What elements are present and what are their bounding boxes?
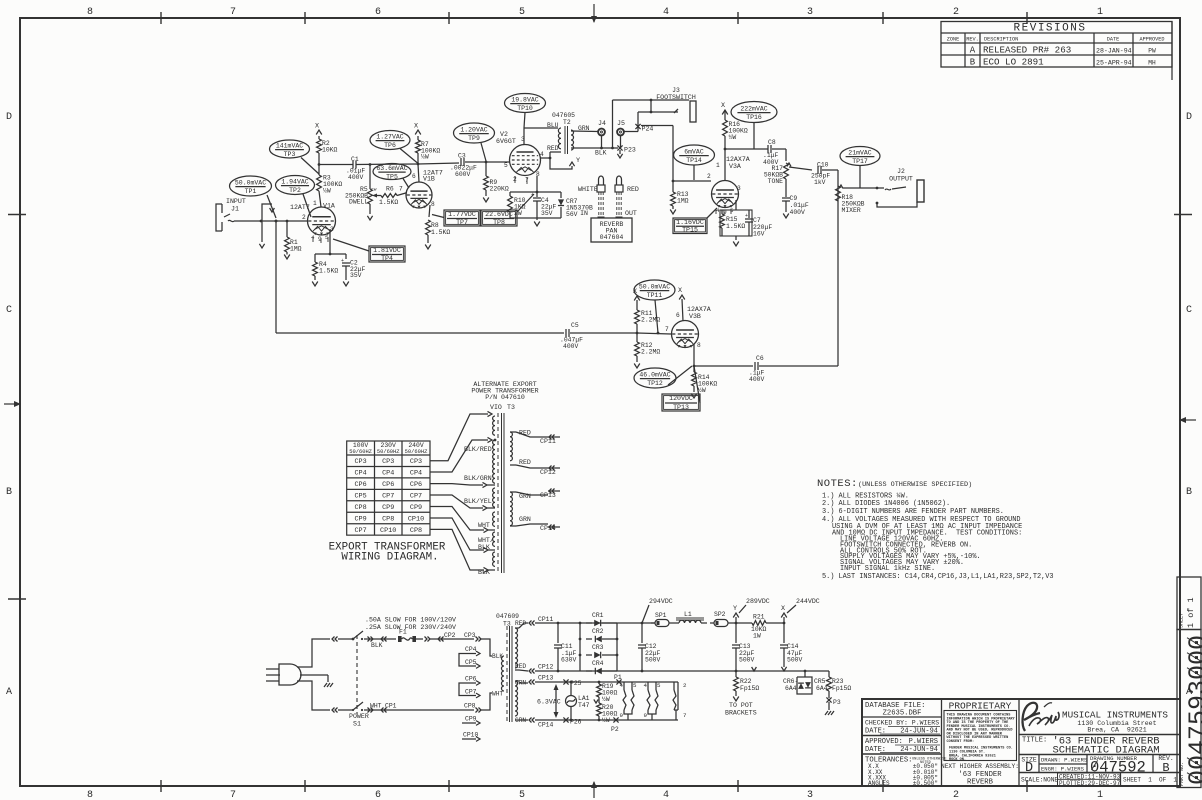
svg-text:CP10: CP10 bbox=[463, 732, 479, 739]
svg-text:CHECKED BY: P.WIERS: CHECKED BY: P.WIERS bbox=[865, 720, 939, 727]
svg-text:R21: R21 bbox=[753, 614, 765, 621]
svg-text:CP6: CP6 bbox=[354, 481, 366, 489]
svg-text:7: 7 bbox=[683, 712, 687, 719]
svg-text:WHT/: WHT/ bbox=[478, 537, 494, 544]
svg-text:CP3: CP3 bbox=[410, 458, 422, 466]
svg-text:J4: J4 bbox=[598, 120, 606, 127]
svg-text:4: 4 bbox=[663, 7, 669, 18]
svg-text:CR3: CR3 bbox=[592, 644, 604, 651]
svg-text:CP14: CP14 bbox=[538, 722, 554, 729]
svg-text:+: + bbox=[745, 213, 748, 219]
svg-text:1: 1 bbox=[1097, 790, 1103, 800]
svg-text:CP1: CP1 bbox=[385, 703, 397, 710]
svg-text:400V: 400V bbox=[563, 343, 579, 350]
svg-text:TP3: TP3 bbox=[284, 151, 296, 158]
svg-text:A: A bbox=[970, 46, 976, 56]
svg-text:9: 9 bbox=[644, 712, 648, 719]
svg-text:.50A SLOW FOR 100V/120V: .50A SLOW FOR 100V/120V bbox=[365, 617, 456, 624]
svg-text:P3: P3 bbox=[833, 699, 841, 706]
svg-text:MH: MH bbox=[1148, 60, 1156, 67]
svg-text:6A4: 6A4 bbox=[785, 685, 797, 692]
svg-text:CP7: CP7 bbox=[382, 492, 394, 500]
svg-text:CP5: CP5 bbox=[465, 659, 477, 666]
svg-text:WHITE: WHITE bbox=[578, 186, 598, 193]
svg-text:1MΩ: 1MΩ bbox=[290, 246, 302, 253]
svg-text:0: 0 bbox=[1184, 770, 1202, 785]
svg-text:6V6GT: 6V6GT bbox=[496, 138, 516, 145]
svg-text:WHT: WHT bbox=[492, 691, 503, 698]
svg-text:3.) 6-DIGIT NUMBERS ARE FENDER: 3.) 6-DIGIT NUMBERS ARE FENDER PART NUMB… bbox=[822, 508, 1004, 516]
svg-text:SP1: SP1 bbox=[655, 612, 667, 619]
svg-text:IN: IN bbox=[580, 210, 588, 217]
svg-text:2: 2 bbox=[683, 682, 687, 689]
svg-text:B: B bbox=[6, 487, 12, 498]
svg-text:RED: RED bbox=[515, 663, 526, 670]
svg-text:CR5-: CR5- bbox=[814, 678, 829, 685]
svg-text:J2: J2 bbox=[897, 168, 905, 175]
svg-text:141mVAC: 141mVAC bbox=[276, 143, 303, 150]
svg-text:T47: T47 bbox=[578, 702, 590, 709]
svg-text:V1B: V1B bbox=[423, 176, 435, 183]
svg-text:289VDC: 289VDC bbox=[746, 598, 770, 605]
svg-text:100V: 100V bbox=[353, 442, 369, 449]
svg-text:244VDC: 244VDC bbox=[796, 598, 820, 605]
svg-text:+: + bbox=[531, 191, 534, 198]
svg-text:BLK/RED: BLK/RED bbox=[464, 446, 492, 453]
svg-text:P23: P23 bbox=[624, 147, 636, 154]
svg-text:1.20VAC: 1.20VAC bbox=[460, 127, 487, 134]
svg-text:7: 7 bbox=[230, 7, 236, 18]
svg-text:SP2: SP2 bbox=[714, 611, 726, 618]
svg-text:PROPRIETARY: PROPRIETARY bbox=[949, 701, 1012, 712]
svg-text:500V: 500V bbox=[787, 657, 803, 664]
svg-text:46.0mVAC: 46.0mVAC bbox=[639, 372, 670, 379]
svg-text:NEXT HIGHER ASSEMBLY:: NEXT HIGHER ASSEMBLY: bbox=[941, 763, 1019, 770]
svg-text:D: D bbox=[6, 112, 12, 123]
svg-text:CP10: CP10 bbox=[380, 527, 396, 535]
svg-text:3: 3 bbox=[807, 7, 813, 18]
svg-text:50.0mVAC: 50.0mVAC bbox=[235, 180, 266, 187]
svg-text:½W: ½W bbox=[323, 187, 331, 195]
svg-text:220KΩ: 220KΩ bbox=[490, 186, 509, 193]
svg-text:6mVAC: 6mVAC bbox=[684, 149, 704, 156]
svg-text:5: 5 bbox=[657, 682, 661, 689]
svg-text:BLK/YEL: BLK/YEL bbox=[464, 498, 492, 505]
svg-text:047604: 047604 bbox=[600, 234, 624, 241]
svg-text:CP10: CP10 bbox=[408, 515, 424, 523]
svg-text:CP3: CP3 bbox=[354, 458, 366, 466]
svg-text:Fp15Ω: Fp15Ω bbox=[832, 685, 851, 692]
svg-text:BRACKETS: BRACKETS bbox=[725, 710, 757, 717]
svg-text:Brea, CA 92621: Brea, CA 92621 bbox=[1087, 727, 1146, 734]
svg-text:047605: 047605 bbox=[552, 112, 575, 119]
svg-text:4: 4 bbox=[540, 151, 544, 158]
svg-text:7: 7 bbox=[230, 790, 236, 800]
svg-text:230V: 230V bbox=[381, 442, 397, 449]
svg-text:DWELL: DWELL bbox=[349, 199, 368, 206]
svg-text:BLK: BLK bbox=[478, 569, 490, 576]
svg-text:4: 4 bbox=[663, 790, 669, 800]
svg-text:630V: 630V bbox=[561, 657, 577, 664]
svg-text:X: X bbox=[315, 123, 319, 131]
svg-text:POWER: POWER bbox=[349, 713, 369, 720]
svg-text:6: 6 bbox=[375, 7, 381, 18]
svg-text:12AX7A: 12AX7A bbox=[726, 156, 750, 163]
svg-text:CONSENT FROM:: CONSENT FROM: bbox=[947, 740, 975, 744]
svg-text:TP15: TP15 bbox=[682, 227, 698, 234]
svg-text:TP5: TP5 bbox=[386, 173, 398, 180]
svg-text:CR1: CR1 bbox=[592, 612, 604, 619]
svg-text:S1: S1 bbox=[353, 721, 361, 728]
svg-text:CP7: CP7 bbox=[354, 527, 366, 535]
svg-text:12AX7A: 12AX7A bbox=[687, 306, 711, 313]
svg-text:SHEET 1 OF 1: SHEET 1 OF 1 bbox=[1123, 777, 1177, 784]
svg-text:CP6: CP6 bbox=[382, 481, 394, 489]
svg-text:50/60HZ: 50/60HZ bbox=[349, 449, 372, 455]
svg-text:50/60HZ: 50/60HZ bbox=[377, 449, 400, 455]
svg-text:TP1: TP1 bbox=[245, 188, 257, 195]
svg-text:X: X bbox=[721, 102, 725, 110]
svg-text:CP5: CP5 bbox=[354, 492, 366, 500]
svg-text:TP8: TP8 bbox=[493, 219, 505, 226]
svg-text:1W: 1W bbox=[753, 633, 761, 640]
svg-text:1.16VDC: 1.16VDC bbox=[676, 219, 704, 226]
svg-text:CP11: CP11 bbox=[538, 616, 554, 623]
svg-text:5: 5 bbox=[633, 682, 637, 689]
svg-text:MUSICAL INSTRUMENTS: MUSICAL INSTRUMENTS bbox=[1062, 710, 1168, 721]
svg-text:.25A SLOW FOR 230V/240V: .25A SLOW FOR 230V/240V bbox=[365, 624, 456, 631]
svg-text:C10: C10 bbox=[817, 162, 829, 169]
svg-text:3: 3 bbox=[807, 790, 813, 800]
svg-text:D: D bbox=[1186, 112, 1192, 123]
svg-text:22.6VDC: 22.6VDC bbox=[485, 211, 513, 218]
svg-text:8: 8 bbox=[87, 790, 93, 800]
svg-text:50.0mVAC: 50.0mVAC bbox=[639, 284, 670, 291]
svg-text:1.5KΩ: 1.5KΩ bbox=[319, 268, 338, 275]
svg-text:PW: PW bbox=[1148, 48, 1156, 55]
svg-text:10KΩ: 10KΩ bbox=[322, 147, 338, 154]
svg-text:MIXER: MIXER bbox=[842, 207, 861, 214]
svg-text:½W: ½W bbox=[421, 153, 429, 161]
svg-text:1: 1 bbox=[313, 200, 317, 207]
svg-text:TP9: TP9 bbox=[468, 135, 480, 142]
svg-text:222mVAC: 222mVAC bbox=[740, 106, 767, 113]
svg-text:P2: P2 bbox=[611, 726, 619, 733]
svg-text:C: C bbox=[1186, 305, 1192, 316]
svg-text:CP9: CP9 bbox=[382, 504, 394, 512]
svg-text:T2: T2 bbox=[563, 119, 571, 126]
svg-text:R23: R23 bbox=[832, 678, 844, 685]
svg-text:CR4: CR4 bbox=[592, 660, 604, 667]
svg-text:WIRING DIAGRAM.: WIRING DIAGRAM. bbox=[341, 552, 438, 564]
svg-text:2.2MΩ: 2.2MΩ bbox=[641, 349, 660, 356]
svg-text:BLK/GRN: BLK/GRN bbox=[464, 475, 492, 482]
svg-text:CP3: CP3 bbox=[382, 458, 394, 466]
svg-text:CP6: CP6 bbox=[465, 676, 477, 683]
svg-text:C3: C3 bbox=[458, 153, 466, 160]
svg-text:½W: ½W bbox=[698, 386, 706, 394]
svg-text:DATE: DATE bbox=[1107, 37, 1119, 43]
svg-text:56V: 56V bbox=[566, 211, 578, 218]
svg-text:V2: V2 bbox=[500, 131, 508, 138]
svg-text:X: X bbox=[781, 605, 785, 613]
svg-text:CP8: CP8 bbox=[464, 703, 476, 710]
svg-text:OUTPUT: OUTPUT bbox=[889, 176, 913, 183]
svg-text:CP12: CP12 bbox=[540, 469, 556, 476]
svg-text:500V: 500V bbox=[645, 657, 661, 664]
svg-text:1.77VDC: 1.77VDC bbox=[448, 211, 476, 218]
svg-text:C11: C11 bbox=[561, 643, 573, 650]
svg-text:CP12: CP12 bbox=[538, 664, 554, 671]
svg-text:REV.: REV. bbox=[966, 37, 978, 43]
svg-text:TP2: TP2 bbox=[289, 187, 301, 194]
svg-text:WHT: WHT bbox=[370, 703, 382, 710]
svg-text:7: 7 bbox=[1184, 725, 1202, 740]
svg-text:C: C bbox=[6, 305, 12, 316]
svg-text:DESCRIPTION: DESCRIPTION bbox=[984, 37, 1018, 43]
svg-text:240V: 240V bbox=[408, 442, 424, 449]
svg-text:50/60HZ: 50/60HZ bbox=[405, 449, 428, 455]
svg-text:CP4: CP4 bbox=[410, 470, 422, 478]
svg-text:DRAWN: P.WIERS: DRAWN: P.WIERS bbox=[1041, 757, 1088, 764]
svg-text:RED: RED bbox=[519, 430, 531, 437]
svg-text:SCALE:NONE: SCALE:NONE bbox=[1021, 777, 1058, 784]
svg-text:TP7: TP7 bbox=[456, 219, 468, 226]
svg-text:ANGLES: ANGLES bbox=[868, 780, 890, 787]
svg-text:NOTES:: NOTES: bbox=[817, 478, 858, 490]
svg-text:J3: J3 bbox=[672, 87, 680, 94]
svg-text:C14: C14 bbox=[787, 643, 799, 650]
svg-text:2: 2 bbox=[1137, 759, 1146, 777]
svg-text:2W: 2W bbox=[514, 210, 522, 217]
svg-text:7: 7 bbox=[399, 186, 403, 193]
svg-text:5: 5 bbox=[519, 7, 525, 18]
svg-text:D: D bbox=[1025, 761, 1033, 776]
svg-text:C9: C9 bbox=[790, 195, 798, 202]
svg-text:Y: Y bbox=[733, 605, 737, 613]
svg-text:V3B: V3B bbox=[689, 313, 701, 320]
svg-text:8: 8 bbox=[87, 7, 93, 18]
svg-text:TP14: TP14 bbox=[686, 157, 702, 164]
svg-text:C13: C13 bbox=[739, 643, 751, 650]
svg-text:25-APR-94: 25-APR-94 bbox=[1096, 60, 1132, 67]
svg-text:0: 0 bbox=[1184, 755, 1202, 770]
svg-text:63.6mVAC: 63.6mVAC bbox=[376, 165, 407, 172]
svg-text:9: 9 bbox=[1127, 759, 1136, 777]
svg-text:5: 5 bbox=[504, 162, 508, 169]
svg-text:28-JAN-94: 28-JAN-94 bbox=[1096, 48, 1132, 55]
svg-text:TITLE:: TITLE: bbox=[1022, 737, 1047, 745]
svg-text:3: 3 bbox=[1184, 680, 1202, 695]
svg-text:6.3VAC: 6.3VAC bbox=[537, 699, 561, 706]
svg-text:C7: C7 bbox=[753, 217, 761, 224]
svg-text:TO POT: TO POT bbox=[729, 702, 753, 709]
svg-text:CP7: CP7 bbox=[465, 689, 477, 696]
svg-text:CP7: CP7 bbox=[410, 492, 422, 500]
svg-text:CP4: CP4 bbox=[354, 470, 366, 478]
svg-text:CP14: CP14 bbox=[540, 525, 556, 532]
svg-text:8: 8 bbox=[697, 342, 701, 349]
svg-text:CP9: CP9 bbox=[354, 515, 366, 523]
svg-text:5.) LAST INSTANCES: C14,CR4,CP: 5.) LAST INSTANCES: C14,CR4,CP16,J3,L1,L… bbox=[822, 573, 1054, 581]
svg-text:BLK: BLK bbox=[478, 544, 490, 551]
svg-text:5: 5 bbox=[519, 790, 525, 800]
svg-text:2.) ALL DIODES 1N4006 (1N5062): 2.) ALL DIODES 1N4006 (1N5062). bbox=[822, 500, 950, 508]
svg-text:9: 9 bbox=[620, 712, 624, 719]
svg-text:1.27VAC: 1.27VAC bbox=[376, 134, 403, 141]
svg-text:OUT: OUT bbox=[625, 210, 637, 217]
svg-text:INPUT: INPUT bbox=[226, 198, 246, 205]
svg-text:400V: 400V bbox=[348, 174, 364, 181]
svg-text:.1μF: .1μF bbox=[763, 152, 779, 159]
svg-text:CP9: CP9 bbox=[465, 716, 477, 723]
svg-text:J5: J5 bbox=[617, 120, 625, 127]
svg-text:TONE: TONE bbox=[768, 178, 784, 185]
svg-text:½W: ½W bbox=[602, 716, 610, 724]
svg-text:6: 6 bbox=[375, 790, 381, 800]
svg-text:RED: RED bbox=[627, 186, 639, 193]
svg-text:B: B bbox=[970, 58, 976, 68]
svg-text:CP8: CP8 bbox=[410, 527, 422, 535]
svg-text:6: 6 bbox=[676, 312, 680, 319]
svg-text:600V: 600V bbox=[455, 171, 471, 178]
svg-text:INPUT SIGNAL 1kHz SINE.: INPUT SIGNAL 1kHz SINE. bbox=[840, 565, 935, 573]
svg-text:(UNLESS OTHERWISE SPECIFIED): (UNLESS OTHERWISE SPECIFIED) bbox=[858, 481, 972, 489]
svg-text:400V: 400V bbox=[790, 209, 806, 216]
svg-text:35V: 35V bbox=[350, 272, 362, 279]
svg-text:0: 0 bbox=[1184, 650, 1202, 665]
svg-text:1.94VAC: 1.94VAC bbox=[281, 179, 308, 186]
svg-text:CP9: CP9 bbox=[410, 504, 422, 512]
svg-text:B: B bbox=[1186, 487, 1192, 498]
svg-text:1: 1 bbox=[716, 162, 720, 169]
svg-text:CP4: CP4 bbox=[382, 470, 394, 478]
svg-text:CR6-: CR6- bbox=[783, 678, 798, 685]
svg-text:16V: 16V bbox=[753, 231, 765, 238]
svg-text:500V: 500V bbox=[739, 657, 755, 664]
svg-text:CP13: CP13 bbox=[538, 675, 554, 682]
svg-text:C6: C6 bbox=[756, 355, 764, 362]
svg-text:REVERB: REVERB bbox=[967, 779, 994, 787]
svg-text:RED: RED bbox=[519, 459, 531, 466]
svg-text:R8: R8 bbox=[431, 222, 439, 229]
svg-text:P/N 047610: P/N 047610 bbox=[485, 394, 525, 401]
svg-text:120VDC: 120VDC bbox=[669, 395, 693, 402]
svg-text:WHT: WHT bbox=[478, 522, 490, 529]
svg-text:V3A: V3A bbox=[729, 163, 741, 170]
svg-text:GRN: GRN bbox=[519, 493, 531, 500]
svg-text:BLK: BLK bbox=[371, 642, 383, 649]
svg-text:1.5KΩ: 1.5KΩ bbox=[379, 199, 398, 206]
svg-text:Y: Y bbox=[576, 157, 580, 165]
svg-text:3: 3 bbox=[737, 185, 741, 192]
svg-text:CP3: CP3 bbox=[464, 632, 476, 639]
svg-text:R15: R15 bbox=[726, 216, 738, 223]
svg-text:CP8: CP8 bbox=[382, 515, 394, 523]
svg-text:CP2: CP2 bbox=[444, 632, 456, 639]
svg-text:TP4: TP4 bbox=[381, 255, 393, 262]
svg-text:6: 6 bbox=[412, 173, 416, 180]
svg-text:+: + bbox=[341, 258, 344, 264]
svg-text:J1: J1 bbox=[231, 206, 239, 213]
svg-text:C12: C12 bbox=[645, 643, 657, 650]
svg-text:4: 4 bbox=[644, 682, 648, 689]
svg-text:RED: RED bbox=[547, 145, 559, 152]
svg-text:CR2: CR2 bbox=[592, 628, 604, 635]
svg-text:Z2635.DBF: Z2635.DBF bbox=[883, 710, 922, 718]
svg-text:PLOTTED:29-DEC-97: PLOTTED:29-DEC-97 bbox=[1059, 780, 1121, 787]
svg-text:ROCK ON.: ROCK ON. bbox=[949, 758, 966, 762]
svg-text:8: 8 bbox=[431, 201, 435, 208]
svg-text:ENGR: P.WIERS: ENGR: P.WIERS bbox=[1041, 766, 1085, 773]
svg-text:RELEASED PR# 263: RELEASED PR# 263 bbox=[983, 45, 1071, 56]
svg-text:P24: P24 bbox=[642, 126, 654, 133]
svg-text:0: 0 bbox=[1184, 665, 1202, 680]
svg-text:CP13: CP13 bbox=[540, 492, 556, 499]
svg-text:C8: C8 bbox=[768, 139, 776, 146]
svg-text:ZONE: ZONE bbox=[947, 37, 959, 43]
svg-text:CP6: CP6 bbox=[410, 481, 422, 489]
svg-text:SHEET: SHEET bbox=[1179, 613, 1185, 628]
svg-text:R6: R6 bbox=[386, 186, 394, 193]
svg-text:CP8: CP8 bbox=[354, 504, 366, 512]
svg-text:35V: 35V bbox=[541, 210, 553, 217]
svg-text:X: X bbox=[678, 287, 682, 295]
svg-text:1kV: 1kV bbox=[814, 179, 826, 186]
svg-text:19.8VAC: 19.8VAC bbox=[511, 97, 538, 104]
svg-text:CP11: CP11 bbox=[540, 438, 556, 445]
svg-text:TP16: TP16 bbox=[746, 114, 762, 121]
svg-text:TP13: TP13 bbox=[673, 404, 689, 411]
svg-text:TP6: TP6 bbox=[384, 142, 396, 149]
svg-text:21mVAC: 21mVAC bbox=[848, 150, 872, 157]
svg-text:TP10: TP10 bbox=[517, 105, 533, 112]
svg-text:1MΩ: 1MΩ bbox=[677, 198, 689, 205]
svg-text:Fp15Ω: Fp15Ω bbox=[740, 685, 759, 692]
svg-text:C1: C1 bbox=[351, 156, 359, 163]
svg-text:T3: T3 bbox=[507, 404, 515, 411]
svg-text:X: X bbox=[414, 123, 418, 131]
svg-text:7: 7 bbox=[665, 326, 669, 333]
svg-text:GRN: GRN bbox=[515, 680, 526, 687]
svg-text:TP11: TP11 bbox=[647, 292, 663, 299]
svg-text:294VDC: 294VDC bbox=[649, 598, 673, 605]
svg-text:APPROVED: APPROVED bbox=[1140, 37, 1165, 43]
svg-text:GRN: GRN bbox=[519, 516, 531, 523]
svg-text:2: 2 bbox=[953, 790, 959, 800]
svg-text:A: A bbox=[6, 687, 12, 698]
svg-text:4: 4 bbox=[1184, 740, 1202, 755]
svg-text:TP12: TP12 bbox=[647, 380, 663, 387]
svg-text:400V: 400V bbox=[749, 376, 765, 383]
svg-text:VIO: VIO bbox=[490, 404, 502, 411]
svg-text:047609: 047609 bbox=[496, 613, 519, 620]
svg-text:½W: ½W bbox=[729, 133, 737, 141]
svg-text:C5: C5 bbox=[571, 322, 579, 329]
svg-text:1 of 1: 1 of 1 bbox=[1186, 597, 1196, 628]
svg-text:1.81VDC: 1.81VDC bbox=[373, 247, 401, 254]
svg-text:1.5KΩ: 1.5KΩ bbox=[726, 223, 745, 230]
svg-text:L1: L1 bbox=[684, 611, 692, 618]
svg-text:½W: ½W bbox=[602, 695, 610, 703]
svg-text:5: 5 bbox=[1184, 710, 1202, 725]
svg-text:CP4: CP4 bbox=[465, 646, 477, 653]
svg-text:2: 2 bbox=[707, 173, 711, 180]
svg-text:4: 4 bbox=[620, 682, 624, 689]
svg-text:V1A: V1A bbox=[323, 203, 335, 210]
svg-text:LA1: LA1 bbox=[578, 695, 590, 702]
svg-text:TP17: TP17 bbox=[852, 158, 868, 165]
